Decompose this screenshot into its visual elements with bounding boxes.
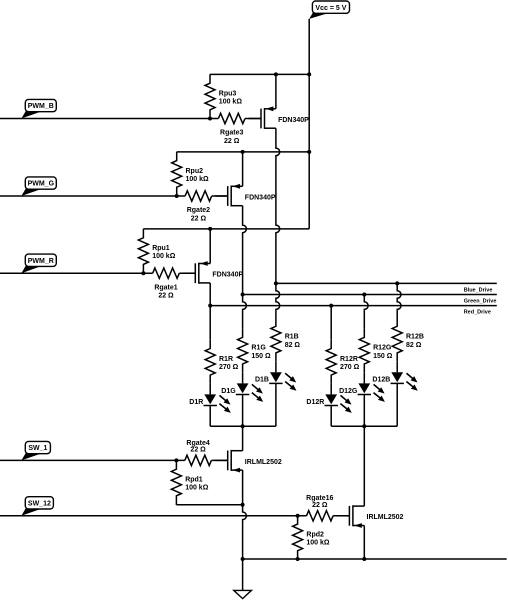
mosfet FDN340P blue bbox=[249, 118, 262, 120]
node Rpd1 top junction bbox=[174, 458, 178, 462]
svg-text:Rpu2: Rpu2 bbox=[186, 168, 204, 175]
net flag SW_12 bbox=[21, 508, 42, 515]
mosfet IRLML2502 Q16 bbox=[337, 515, 350, 517]
svg-text:100 kΩ: 100 kΩ bbox=[185, 485, 209, 492]
svg-text:R1B: R1B bbox=[285, 334, 299, 341]
wire net Red_Drive bbox=[210, 305, 497, 307]
svg-text:PWM_R: PWM_R bbox=[28, 258, 54, 265]
svg-text:R1G: R1G bbox=[251, 345, 266, 352]
resistor R12G bbox=[359, 329, 369, 373]
svg-text:D12G: D12G bbox=[339, 388, 358, 395]
wire bank1 cathode rail bbox=[210, 425, 276, 427]
svg-text:R1R: R1R bbox=[219, 356, 233, 363]
wire PWM_B bbox=[0, 118, 218, 120]
node Red_Drive bank2 bbox=[329, 304, 333, 308]
svg-text:100 kΩ: 100 kΩ bbox=[152, 253, 176, 260]
resistor Rgate1 bbox=[153, 268, 180, 278]
wire FDN340P green source bbox=[242, 152, 244, 186]
wire FDN340P blue source bbox=[275, 74, 277, 108]
resistor Rpu1 bbox=[138, 229, 148, 273]
resistor Rpd1 bbox=[171, 460, 181, 504]
wire net Blue_Drive bbox=[276, 282, 497, 284]
LED D1B bbox=[270, 372, 282, 382]
LED D12B bbox=[391, 372, 403, 382]
svg-text:22 Ω: 22 Ω bbox=[158, 293, 174, 300]
svg-text:FDN340P: FDN340P bbox=[212, 272, 243, 279]
resistor R12B bbox=[392, 318, 402, 362]
wire R12B to D12B bbox=[396, 362, 398, 373]
wire FDN340P green drain to Green_Drive bbox=[243, 206, 247, 295]
wire Q16 source to ground rail bbox=[363, 526, 365, 560]
wire D1B cathode bbox=[275, 383, 277, 426]
wire R1B to D1B bbox=[275, 362, 277, 373]
net flag SW_1 bbox=[21, 453, 42, 460]
wire net Green_Drive bbox=[243, 294, 497, 296]
svg-text:Rgate2: Rgate2 bbox=[187, 207, 210, 214]
svg-text:IRLML2502: IRLML2502 bbox=[367, 514, 404, 521]
node Rpu3 bottom junction bbox=[208, 117, 212, 121]
wire FDN340P red source bbox=[209, 229, 211, 264]
svg-text:R12R: R12R bbox=[340, 356, 358, 363]
wire bank2 cathode rail bbox=[331, 425, 397, 427]
node bank2 rail junction bbox=[362, 424, 366, 428]
wire D1G column bbox=[243, 295, 247, 329]
node row2 Vcc junction bbox=[307, 150, 311, 154]
svg-text:PWM_G: PWM_G bbox=[28, 181, 55, 188]
net flag PWM_R bbox=[21, 266, 42, 273]
node Rpd1 source junction bbox=[241, 503, 245, 507]
svg-text:PWM_B: PWM_B bbox=[28, 103, 54, 110]
ground symbol bbox=[234, 590, 252, 598]
svg-text:Rpd1: Rpd1 bbox=[185, 477, 203, 484]
svg-text:Rgate3: Rgate3 bbox=[220, 130, 243, 137]
wire Vcc vertical rail bbox=[308, 19, 310, 229]
resistor Rpd2 bbox=[293, 515, 303, 559]
wire R1R to D1R bbox=[209, 384, 211, 395]
svg-text:150 Ω: 150 Ω bbox=[251, 353, 271, 360]
wire D1G cathode bbox=[242, 395, 244, 427]
resistor Rgate2 bbox=[185, 191, 212, 201]
resistor Rgate16 bbox=[307, 511, 334, 521]
svg-text:22 Ω: 22 Ω bbox=[190, 447, 206, 454]
wire Q1 source to ground rail bbox=[243, 470, 247, 559]
svg-text:82 Ω: 82 Ω bbox=[285, 342, 301, 349]
wire R12G to D12G bbox=[363, 373, 365, 384]
svg-text:Vcc = 5 V: Vcc = 5 V bbox=[315, 5, 346, 12]
wire D1R column bbox=[209, 306, 211, 340]
wire row2 pull-up top bbox=[177, 151, 310, 153]
wire SW_1 bbox=[0, 459, 185, 461]
wire D1B column bbox=[276, 283, 280, 317]
node row1 Vcc junction bbox=[307, 72, 311, 76]
svg-text:Red_Drive: Red_Drive bbox=[464, 309, 491, 315]
wire R12R to D12R bbox=[330, 384, 332, 395]
wire ground rail bbox=[243, 558, 507, 560]
node ground rail Q16 bbox=[362, 557, 366, 561]
wire row1 pull-up top bbox=[210, 73, 309, 75]
mosfet FDN340P green bbox=[215, 195, 228, 197]
resistor R1B bbox=[271, 318, 281, 362]
svg-text:Rgate1: Rgate1 bbox=[154, 284, 177, 291]
LED D1R bbox=[204, 394, 216, 404]
wire D12R column bbox=[330, 306, 332, 340]
svg-text:150 Ω: 150 Ω bbox=[373, 353, 393, 360]
mosfet IRLML2502 Q1 bbox=[215, 459, 228, 461]
svg-text:Rpd2: Rpd2 bbox=[306, 531, 324, 538]
node ground rail Q1 bbox=[241, 557, 245, 561]
resistor Rpu3 bbox=[205, 74, 215, 118]
svg-text:270 Ω: 270 Ω bbox=[340, 364, 360, 371]
svg-text:100 kΩ: 100 kΩ bbox=[186, 176, 210, 183]
svg-text:100 kΩ: 100 kΩ bbox=[306, 540, 330, 547]
node Green_Drive bank2 bbox=[362, 293, 366, 297]
svg-text:D12R: D12R bbox=[306, 399, 324, 406]
node Blue_Drive bank2 bbox=[395, 281, 399, 285]
wire D12G cathode bbox=[363, 395, 365, 427]
wire Q1 drain to bank1 rail bbox=[242, 426, 244, 451]
svg-text:R12B: R12B bbox=[406, 334, 424, 341]
svg-text:Blue_Drive: Blue_Drive bbox=[464, 288, 493, 294]
svg-text:82 Ω: 82 Ω bbox=[406, 342, 422, 349]
mosfet FDN340P red bbox=[183, 272, 196, 274]
resistor R1R bbox=[205, 340, 215, 384]
resistor Rpu2 bbox=[172, 152, 182, 196]
net flag PWM_B bbox=[21, 111, 42, 118]
node ground rail Rpd2 bbox=[296, 557, 300, 561]
node row3 source junction bbox=[208, 227, 212, 231]
net flag PWM_G bbox=[21, 189, 42, 196]
LED D12G bbox=[358, 383, 370, 393]
svg-text:22 Ω: 22 Ω bbox=[191, 215, 207, 222]
svg-text:SW_1: SW_1 bbox=[28, 445, 47, 452]
node row2 source junction bbox=[241, 150, 245, 154]
svg-text:SW_12: SW_12 bbox=[28, 500, 51, 507]
wire ground stem bbox=[242, 559, 244, 590]
power flag Vcc = 5 V bbox=[309, 13, 329, 19]
wire FDN340P blue drain to Blue_Drive bbox=[276, 128, 280, 283]
wire SW_12 bbox=[0, 515, 307, 517]
node Rpu2 bottom junction bbox=[175, 194, 179, 198]
resistor Rgate3 bbox=[218, 113, 245, 123]
LED D1G bbox=[237, 383, 249, 393]
wire D12B column bbox=[397, 283, 401, 317]
svg-text:22 Ω: 22 Ω bbox=[312, 502, 328, 509]
wire Q16 drain to bank2 rail bbox=[363, 426, 365, 506]
wire D12B cathode bbox=[396, 383, 398, 426]
node Red_Drive bank1 bbox=[208, 304, 212, 308]
svg-text:D1B: D1B bbox=[255, 377, 269, 384]
svg-text:Rpu3: Rpu3 bbox=[219, 91, 237, 98]
wire D1R cathode bbox=[209, 406, 211, 427]
resistor Rgate4 bbox=[185, 455, 212, 465]
svg-text:Rpu1: Rpu1 bbox=[152, 245, 170, 252]
svg-text:R12G: R12G bbox=[373, 345, 392, 352]
wire D12G column bbox=[364, 295, 368, 329]
resistor R12R bbox=[326, 340, 336, 384]
svg-text:D1R: D1R bbox=[189, 399, 203, 406]
wire Rpd1 bottom to source bbox=[175, 503, 177, 506]
svg-text:22 Ω: 22 Ω bbox=[224, 138, 240, 145]
wire D12R cathode bbox=[330, 406, 332, 427]
LED D12R bbox=[325, 394, 337, 404]
svg-text:270 Ω: 270 Ω bbox=[219, 364, 239, 371]
svg-text:Green_Drive: Green_Drive bbox=[464, 299, 497, 305]
wire PWM_G bbox=[0, 195, 185, 197]
svg-text:IRLML2502: IRLML2502 bbox=[245, 459, 282, 466]
node row1 source junction bbox=[274, 72, 278, 76]
svg-text:D12B: D12B bbox=[372, 377, 390, 384]
wire R1G to D1G bbox=[242, 373, 244, 384]
node Blue_Drive bank1 bbox=[274, 281, 278, 285]
svg-text:D1G: D1G bbox=[221, 388, 236, 395]
svg-text:FDN340P: FDN340P bbox=[278, 117, 309, 124]
resistor R1G bbox=[238, 329, 248, 373]
wire PWM_R bbox=[0, 272, 153, 274]
svg-text:FDN340P: FDN340P bbox=[245, 194, 276, 201]
node Rpu1 bottom junction bbox=[141, 271, 145, 275]
wire row3 pull-up top bbox=[143, 228, 309, 230]
wire FDN340P red drain to Red_Drive bbox=[209, 283, 211, 306]
node Rpd2 top junction bbox=[296, 514, 300, 518]
node Green_Drive bank1 bbox=[241, 293, 245, 297]
svg-text:100 kΩ: 100 kΩ bbox=[219, 99, 243, 106]
node bank1 rail junction bbox=[241, 424, 245, 428]
